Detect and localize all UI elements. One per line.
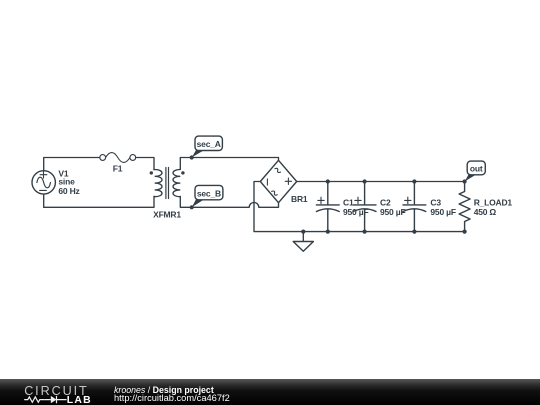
svg-text:sec_B: sec_B [197,188,221,198]
svg-text:F1: F1 [113,164,123,174]
BR1 AC mark top [275,167,281,173]
wire: fuse to transformer primary [136,158,154,170]
voltage source V1 [32,171,55,194]
capacitor C1 [316,182,339,232]
transformer primary phase dot [150,171,153,174]
BR1 plus mark [285,178,291,184]
wire: bridge left corner to bottom rail [254,182,465,232]
svg-text:950 µF: 950 µF [343,207,368,217]
svg-text:C1: C1 [343,198,354,208]
capacitor C2 [353,182,376,232]
resistor R_LOAD1 [459,182,470,232]
CircuitLab logo diode [44,396,66,403]
wire: secondary bottom with hop over vertical (node sec_B) [180,197,278,208]
svg-text:sec_A: sec_A [197,139,221,149]
fuse F1 [100,153,136,163]
svg-text:C2: C2 [380,198,391,208]
svg-text:950 µF: 950 µF [380,207,405,217]
svg-text:R_LOAD1: R_LOAD1 [474,198,513,208]
svg-text:450 Ω: 450 Ω [474,207,497,217]
node flag out [465,175,476,182]
ground symbol [302,232,304,242]
svg-text:950 µF: 950 µF [430,207,455,217]
capacitor C3 [403,182,426,232]
CircuitLab logo resistor squiggle [24,397,44,402]
BR1 AC mark bottom [271,190,277,196]
bridge rectifier BR1 body [260,160,296,202]
svg-text:LAB: LAB [67,395,92,405]
node flag sec_A [192,150,204,157]
svg-text:http://circuitlab.com/ca467f2: http://circuitlab.com/ca467f2 [114,393,230,403]
transformer secondary phase dot [181,171,184,174]
wire: top output rail from BR1 to load [297,181,465,183]
svg-text:BR1: BR1 [291,194,308,204]
wire: V1 bottom wire to transformer primary bottom [44,196,154,207]
transformer XFMR1 core [166,168,169,199]
wire: secondary top to bridge (node sec_A) [180,158,278,170]
transformer XFMR1 primary winding [154,170,162,197]
junction ground node [301,230,305,234]
svg-text:out: out [470,163,483,173]
node flag sec_B [192,200,204,208]
svg-text:60 Hz: 60 Hz [58,186,79,196]
wire: V1 left vertical + top wire to fuse [44,158,100,208]
svg-text:C3: C3 [430,198,441,208]
BR1 minus mark [266,179,268,185]
svg-text:XFMR1: XFMR1 [153,209,181,219]
transformer XFMR1 secondary winding [173,170,180,197]
